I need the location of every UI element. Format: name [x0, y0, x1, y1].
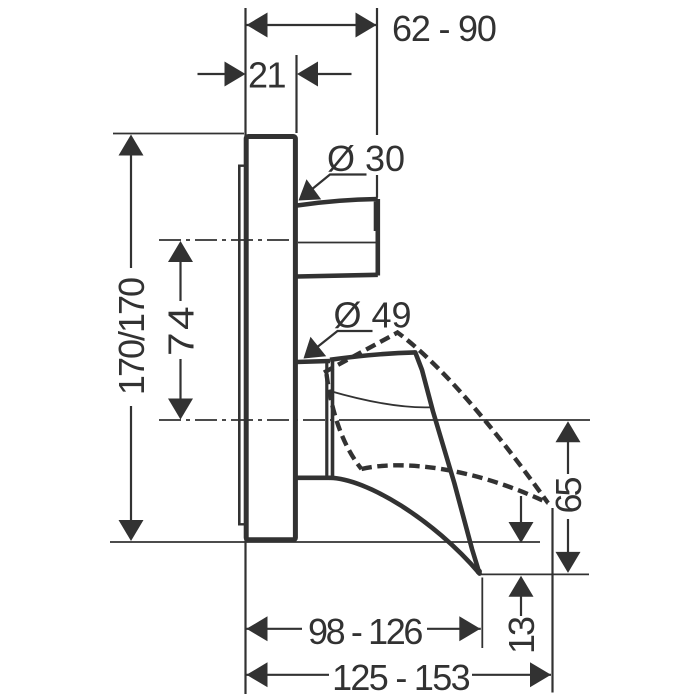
svg-text:98 - 126: 98 - 126: [308, 611, 422, 652]
back flange bottom cap: [238, 523, 245, 525]
valve sleeve top edge: [296, 361, 330, 362]
arrow 170/170 top: [119, 135, 144, 156]
dimension line 65 upper segment: [567, 442, 569, 474]
extension line spout tip level y=574.4: [480, 573, 589, 575]
dimension 21 left tail: [198, 73, 226, 75]
back flange line: [238, 165, 241, 526]
upper handle top edge: [297, 199, 378, 206]
spout tip: [476, 568, 482, 574]
centerline of lever hub y=420 dashdot part: [159, 419, 345, 421]
upper handle front edge: [375, 199, 380, 276]
extension line wall/left reference x=245.5: [244, 8, 246, 694]
escutcheon plate: [246, 137, 295, 540]
dimension line 125-153 right segment: [472, 674, 551, 676]
arrow 21 right outside: [297, 62, 318, 87]
dimension line 74 lower segment: [179, 359, 181, 405]
arrow 125-153 right: [530, 662, 551, 687]
arrow 13 upper outside: [509, 522, 534, 543]
upper handle inner edge line: [374, 202, 376, 232]
svg-text:21: 21: [248, 55, 286, 96]
dimension line 74 upper segment: [179, 255, 181, 301]
leader line O49: [306, 331, 373, 356]
leader line O30: [303, 175, 367, 197]
arrow 62-90 left: [247, 13, 268, 38]
extension line handle front x=377 lower segment: [376, 175, 378, 198]
valve sleeve right edge: [325, 363, 328, 477]
arrow 170/170 bottom: [119, 520, 144, 541]
arrow 62-90 right: [356, 13, 377, 38]
arrow 21 left outside: [225, 62, 246, 87]
leader arrow O30: [299, 179, 322, 200]
valve sleeve bottom edge: [296, 475, 330, 480]
centerline of upper handle y=240: [159, 239, 293, 241]
dimension line 98-126 right segment: [427, 628, 481, 630]
extension line bottom y=542: [110, 541, 540, 543]
arrow 98-126 right: [459, 616, 480, 641]
dashed lever raised position back arc: [327, 374, 362, 469]
back flange top cap: [238, 164, 245, 166]
dimension line 62-90: [246, 24, 377, 26]
dimension line 98-126 left segment: [246, 628, 302, 630]
dimension 21 right tail: [317, 73, 352, 75]
dimension line 170/170 lower segment: [130, 406, 132, 525]
svg-text:74: 74: [162, 304, 202, 356]
svg-text:Ø 49: Ø 49: [334, 295, 412, 336]
svg-text:62 - 90: 62 - 90: [392, 8, 496, 49]
extension line spout tip x=482.3: [481, 578, 483, 649]
dashed lever raised position bottom curve: [362, 465, 549, 503]
lever hub back edge: [331, 362, 335, 479]
dashed lever raised position upper edge: [324, 333, 548, 504]
lever seam curve: [330, 391, 431, 407]
svg-text:125 - 153: 125 - 153: [332, 657, 469, 698]
arrow 13 lower outside: [509, 576, 534, 597]
upper handle bottom edge: [297, 275, 378, 277]
dimension line 13 upper stem: [520, 496, 522, 523]
svg-text:Ø 30: Ø 30: [327, 138, 405, 179]
arrow 74 bottom: [168, 399, 193, 420]
centerline of lever hub y=420 solid part: [345, 419, 590, 421]
arrow 98-126 left: [247, 616, 268, 641]
extension line handle front x=377 upper segment: [376, 8, 378, 135]
arrow 65 bottom: [556, 552, 581, 573]
extension line plate front x=296.5: [295, 55, 297, 133]
dimension line 65 lower segment: [567, 519, 569, 552]
lever bottom curve: [330, 478, 480, 574]
dimension line 13 lower stem: [520, 596, 522, 616]
svg-text:170/170: 170/170: [111, 278, 152, 395]
svg-text:65: 65: [548, 478, 589, 514]
extension line top of plate y=133.5: [113, 133, 244, 135]
upper handle seam line: [298, 242, 376, 244]
arrow 74 top: [168, 241, 193, 262]
lever front edge: [415, 352, 479, 573]
leader arrow O49: [304, 337, 327, 359]
lever top edge: [330, 352, 415, 359]
svg-text:13: 13: [501, 617, 542, 654]
arrow 65 top: [556, 421, 581, 442]
extension line dashed tip x=552.5: [551, 508, 553, 693]
dimension line 170/170 upper segment: [130, 150, 132, 268]
dimension line 125-153 left segment: [246, 674, 329, 676]
arrow 125-153 left: [247, 662, 268, 687]
